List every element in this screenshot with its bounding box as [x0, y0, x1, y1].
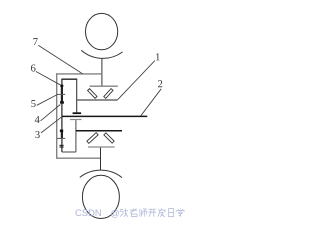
block top edge — [61, 78, 77, 80]
wire bottom stem — [100, 148, 102, 171]
label 3 — [35, 131, 39, 138]
shaft 1 horizontal — [77, 99, 118, 101]
leader line 3 — [41, 117, 62, 133]
bearing blob D3 — [60, 130, 63, 133]
double dash d1 — [60, 145, 64, 146]
watermark char fa — [158, 208, 166, 216]
lower stem — [75, 120, 77, 152]
double dash d2 — [60, 146, 64, 147]
roller lower-left parallelogram — [87, 133, 98, 144]
wheel W1 top ellipse — [86, 13, 118, 49]
watermark char chang — [177, 208, 184, 217]
watermark CJK glyphs — [120, 208, 184, 217]
wheel W2 bottom ellipse — [82, 175, 119, 218]
arc under top wheel — [81, 50, 122, 58]
frame top edge — [56, 73, 102, 75]
shaft vertical left — [61, 79, 63, 152]
watermark char lao — [130, 208, 137, 216]
watermark char zhang — [120, 209, 128, 217]
wire top stem — [101, 59, 103, 86]
lower block bottom edge — [62, 151, 76, 153]
watermark char kai — [149, 209, 157, 217]
watermark char shi — [140, 209, 147, 217]
shaft B horizontal — [76, 130, 122, 132]
shaft A main horizontal — [62, 115, 147, 117]
label 5 — [31, 100, 35, 107]
label 7 — [33, 38, 37, 45]
leader line 1 — [117, 61, 155, 100]
roller upper-right parallelogram — [104, 89, 113, 99]
watermark CSDN — [75, 209, 81, 216]
bottom grey bar — [88, 146, 115, 148]
leader line 2 — [141, 89, 161, 116]
bearing dot D1 — [60, 85, 63, 87]
leader line 7 — [38, 45, 82, 74]
watermark at-sign — [111, 210, 119, 218]
label 6 — [31, 64, 36, 71]
leader line 6 — [36, 72, 61, 86]
label 2 — [158, 80, 162, 87]
arc over bottom wheel — [80, 170, 122, 177]
frame left edge — [56, 73, 58, 158]
shaft vertical thick segment c — [61, 132, 63, 139]
dark T-bar under block — [73, 112, 82, 114]
frame bottom edge — [56, 157, 100, 159]
leader line 5 — [37, 95, 57, 106]
shaft vertical thick segment a — [61, 87, 63, 95]
node top T-bar — [90, 85, 118, 87]
lower grey T-bar — [70, 119, 82, 121]
tick T1 — [57, 93, 65, 95]
roller lower-right parallelogram — [104, 133, 114, 143]
shaft vertical thick segment b — [61, 95, 63, 102]
leader line 4 — [41, 105, 61, 121]
stem right of block — [76, 79, 78, 112]
watermark char ri — [169, 209, 174, 217]
bearing blob D2 — [60, 101, 64, 104]
roller upper-left parallelogram — [88, 89, 97, 99]
tick T2 — [57, 137, 65, 139]
label 1 — [156, 53, 160, 60]
label 4 — [35, 116, 40, 123]
